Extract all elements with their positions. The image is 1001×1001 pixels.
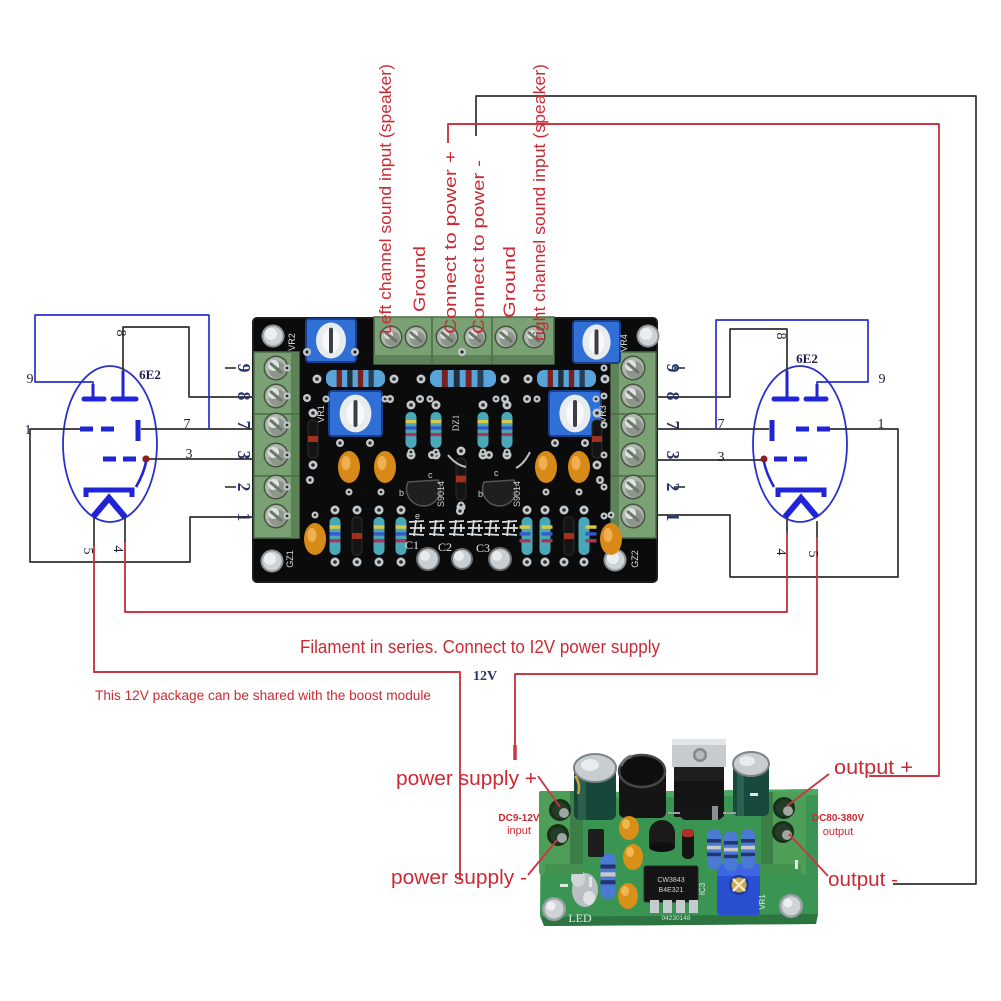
regulator U2 (TO-220 with tab)	[672, 739, 726, 817]
svg-text:input: input	[507, 825, 531, 837]
resistor row R-top-right	[524, 370, 610, 387]
svg-text:1: 1	[663, 513, 683, 522]
resistor RB4 (boost left)	[601, 853, 616, 899]
transistor Q1 S9014	[407, 480, 446, 507]
svg-text:LED: LED	[568, 911, 592, 925]
transistor Q2 S9014	[483, 480, 522, 507]
wire: left tube pin 1 to JL-1	[30, 429, 253, 562]
wire: filament series link (pin4 left to pin4 right)	[125, 533, 787, 612]
wire: power minus bus (black, top to output-)	[476, 96, 976, 884]
svg-text:2: 2	[663, 483, 683, 492]
transistor QB1 (TO-92)	[649, 820, 675, 852]
wire: right tube pin 7 to JR-7	[657, 428, 769, 430]
svg-text:12V: 12V	[473, 669, 497, 684]
diode DZ1	[456, 447, 466, 512]
terminal block JL (left, pins 9 8 7 3 2 1)	[254, 352, 299, 538]
output terminal block (DC80-380V)	[761, 792, 806, 874]
wire: left tube pin 9 (blue)	[35, 315, 209, 429]
wire: left tube pin 5 lead	[93, 517, 95, 546]
diode DB2 (small, red band)	[682, 829, 694, 859]
svg-text:output -: output -	[828, 869, 898, 891]
svg-text:C1: C1	[405, 538, 419, 552]
wire: right tube pin 5 lead	[816, 521, 818, 537]
svg-text:8: 8	[663, 392, 683, 401]
pin letters b c e (Q1)	[399, 470, 433, 521]
svg-text:Ground: Ground	[500, 246, 519, 318]
pin letters b c (Q2)	[478, 468, 499, 499]
capacitor CE2 (big black electrolytic)	[619, 755, 666, 818]
pointer: power supply - to input terminal	[528, 840, 557, 875]
resistor R-mid-3	[478, 401, 489, 460]
svg-text:9: 9	[234, 364, 254, 373]
trimpot VR2	[306, 319, 356, 362]
diode D-boost (black axial)	[668, 806, 736, 820]
svg-text:3: 3	[718, 450, 725, 465]
svg-text:Left channel sound input (spea: Left channel sound input (speaker)	[376, 64, 395, 334]
boost module PCB (bottom)	[540, 789, 818, 926]
svg-text:output: output	[823, 826, 854, 838]
svg-text:6E2: 6E2	[139, 367, 161, 382]
vacuum tube V2 (6E2, right)	[753, 366, 847, 522]
trimpot VR3	[549, 391, 601, 436]
svg-text:CW3843: CW3843	[657, 877, 684, 884]
capacitor CY3 (orange)	[618, 883, 638, 909]
svg-text:3: 3	[663, 451, 683, 460]
svg-text:VR4: VR4	[619, 334, 629, 352]
capacitor CY2 (orange)	[623, 844, 643, 870]
resistor/diode RB8	[579, 506, 597, 567]
svg-text:c: c	[428, 470, 433, 480]
svg-text:8: 8	[113, 330, 128, 337]
svg-text:Connect to power +: Connect to power +	[441, 151, 460, 334]
pointer: power supply + to input terminal	[538, 776, 560, 807]
mounting screw (boost, bottom-left)	[542, 897, 566, 921]
svg-text:Ground: Ground	[410, 246, 429, 312]
resistor RB1 (boost)	[707, 829, 721, 869]
mounting hole screw bottom-left	[261, 550, 284, 573]
jumper wires (silver, decorative)	[448, 452, 530, 468]
resistor row R-top-left	[313, 370, 399, 387]
svg-text:right channel sound input (spe: right channel sound input (speaker)	[530, 64, 549, 341]
svg-text:1: 1	[25, 423, 32, 438]
svg-text:9: 9	[27, 372, 34, 387]
solder blob / LED dome	[571, 869, 598, 907]
wire: 12V drop tick to DC9-12V input	[513, 745, 517, 760]
silkscreen brand text (CJK)	[409, 520, 518, 536]
svg-text:This 12V package can be shared: This 12V package can be shared with the …	[95, 688, 431, 703]
svg-text:b: b	[399, 488, 404, 498]
svg-text:output +: output +	[834, 757, 913, 779]
resistor row R-top-mid	[417, 370, 510, 387]
resistor RB2 (boost)	[724, 831, 738, 871]
svg-text:DZ1: DZ1	[451, 415, 461, 432]
wire: right tube pin 1 to JR-1	[657, 429, 898, 577]
wire: right tube pin 3 to JR-3	[657, 459, 761, 461]
mounting hole screw top-left	[262, 325, 285, 348]
svg-text:DC9-12V: DC9-12V	[498, 813, 539, 824]
svg-text:8: 8	[773, 333, 788, 340]
svg-text:6E2: 6E2	[796, 351, 818, 366]
input terminal block (DC9-12V)	[539, 791, 583, 874]
diode D-left	[308, 409, 318, 470]
svg-text:VR1: VR1	[316, 405, 326, 423]
silkscreen J2 marks	[560, 793, 798, 887]
svg-text:S9014: S9014	[512, 481, 522, 507]
capacitor CT3 (orange tantalum)	[535, 451, 557, 483]
resistor R-mid-1	[406, 401, 417, 460]
svg-text:B4E321: B4E321	[659, 887, 684, 894]
solder pads row 2 (decorative)	[284, 365, 615, 520]
inductor L1 (small black)	[588, 829, 604, 857]
svg-text:7: 7	[184, 417, 191, 432]
wire: right tube pin 9 (blue)	[716, 320, 868, 429]
terminal block JT (top, input/power, 6 way)	[374, 317, 554, 364]
vacuum tube V1 (6E2, left)	[63, 366, 157, 522]
svg-text:C2: C2	[438, 540, 452, 554]
svg-text:4: 4	[110, 546, 125, 553]
terminal block JR (right, pins 9 8 7 3 2 1)	[611, 352, 656, 538]
capacitor CT6 (orange tantalum)	[600, 523, 622, 555]
wire: right tube pin 8 to JR-8	[657, 329, 787, 397]
resistor R-mid-2	[431, 401, 442, 460]
resistor/diode RB6	[540, 506, 553, 567]
svg-text:3: 3	[186, 447, 193, 462]
pointer: output - to output terminal	[789, 834, 828, 876]
svg-text:9: 9	[879, 372, 886, 387]
trimpot VR4	[573, 321, 620, 363]
capacitor CT1 (orange tantalum)	[338, 451, 360, 483]
capacitor CE3 (dark green electrolytic, right)	[733, 752, 769, 816]
capacitor CY1 (orange)	[619, 816, 639, 840]
svg-text:Connect to power -: Connect to power -	[469, 160, 488, 334]
capacitor CT5 (orange tantalum)	[304, 523, 326, 555]
wire: left tube pin 4 lead	[124, 517, 126, 542]
svg-text:9: 9	[663, 364, 683, 373]
capacitor C3 (electrolytic)	[488, 547, 512, 571]
svg-text:5: 5	[805, 551, 820, 558]
wire: left tube pin 3 to JL-3	[149, 458, 253, 460]
svg-text:Filament in series. Connect to: Filament in series. Connect to I2V power…	[300, 637, 660, 657]
VU driver PCB board U-MAIN	[253, 318, 657, 582]
mounting hole screw top-right	[637, 325, 660, 348]
resistor R-mid-4	[502, 401, 513, 460]
svg-text:2: 2	[234, 483, 254, 492]
resistor/diode RB1	[330, 506, 341, 567]
diode D-right	[592, 409, 602, 470]
resistor/diode RB7	[560, 506, 575, 567]
svg-text:04230148: 04230148	[662, 915, 691, 922]
net number ticks (left JL pins 9 and 2)	[225, 368, 236, 487]
svg-text:power supply -: power supply -	[391, 867, 527, 889]
wire: left tube pin 7 to JL-7	[141, 428, 253, 430]
wire: right tube pin 4 lead	[786, 517, 788, 533]
trimpot VR1	[329, 391, 382, 436]
capacitor CE1 (dark green electrolytic)	[574, 754, 616, 820]
capacitor C2 (electrolytic)	[451, 548, 473, 570]
wire: 12V filament supply left (pin5 to power supply minus)	[94, 546, 460, 880]
trimpot VR-boost (blue multiturn)	[717, 864, 760, 915]
svg-text:c: c	[494, 468, 499, 478]
wire: left tube pin 8 to JL-8	[123, 327, 253, 397]
svg-text:e: e	[415, 511, 420, 521]
resistor/diode RB2	[352, 506, 362, 567]
resistor/diode RB3	[374, 506, 385, 567]
svg-text:power supply +: power supply +	[396, 768, 537, 790]
svg-text:S9014: S9014	[436, 481, 446, 507]
IC U3 (DIP-8)	[644, 866, 698, 913]
svg-text:1: 1	[878, 417, 885, 432]
svg-text:DC80-380V: DC80-380V	[812, 813, 865, 824]
svg-text:VR2: VR2	[287, 333, 297, 351]
wire: connect-to-power-plus stub	[448, 124, 939, 776]
resistor RB3 (boost)	[741, 829, 755, 869]
mounting hole screw bottom-right	[604, 549, 627, 572]
svg-text:4: 4	[773, 549, 788, 556]
solder pads (decorative)	[303, 348, 604, 515]
mounting screw (boost, bottom-right)	[779, 894, 803, 918]
svg-text:GZ2: GZ2	[630, 550, 640, 568]
capacitor CT4 (orange tantalum)	[568, 451, 590, 483]
svg-text:IC3: IC3	[698, 882, 707, 895]
svg-text:b: b	[478, 489, 483, 499]
net number ticks (right JR pins 9 and 2)	[674, 368, 685, 487]
svg-text:5: 5	[80, 548, 95, 555]
wire: 12V filament supply right (pin5 to DC input)	[515, 537, 817, 752]
capacitor C1 (electrolytic)	[416, 547, 440, 571]
capacitor CT2 (orange tantalum)	[374, 451, 396, 483]
pointer: output + to output terminal	[787, 774, 829, 806]
svg-text:7: 7	[718, 417, 725, 432]
svg-text:VR1: VR1	[758, 894, 767, 910]
svg-text:GZ1: GZ1	[285, 550, 295, 568]
svg-text:8: 8	[234, 392, 254, 401]
resistor/diode RB4	[396, 506, 407, 567]
resistor/diode RB5	[520, 506, 533, 567]
svg-text:C3: C3	[476, 541, 490, 555]
